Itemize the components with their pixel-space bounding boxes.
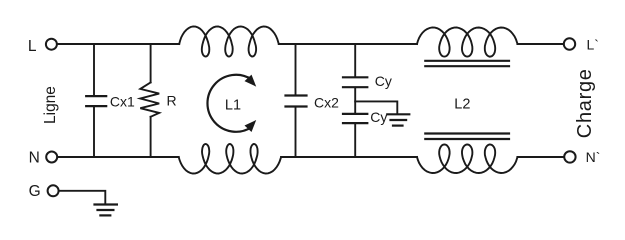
svg-text:N`: N`	[586, 149, 601, 165]
svg-text:L1: L1	[225, 98, 241, 114]
inductor L1 top winding	[179, 27, 278, 57]
L1 arrowhead bottom	[245, 120, 257, 132]
inductor L2 bottom winding	[417, 145, 517, 174]
wire G to ground	[60, 191, 106, 204]
L1 arrowhead top	[245, 75, 257, 87]
wire top L line left	[58, 43, 179, 45]
wire Cx2 branch lower	[295, 108, 297, 157]
wire Cx2 branch upper	[295, 44, 297, 94]
svg-text:Cx2: Cx2	[314, 95, 339, 111]
wire bottom N line left	[58, 156, 179, 158]
L1 circulation arrow arc	[207, 75, 251, 132]
capacitor Cx2	[286, 96, 307, 107]
terminal N	[46, 152, 57, 163]
svg-text:N: N	[29, 149, 40, 166]
L2 core top lines	[425, 61, 509, 66]
svg-text:Cy: Cy	[375, 73, 392, 89]
wire Cx1 branch upper	[93, 44, 95, 95]
wire bottom N line right	[517, 156, 563, 158]
capacitor Cy bottom	[343, 114, 367, 123]
svg-text:R: R	[167, 93, 177, 109]
wire top L line right	[517, 43, 563, 45]
svg-text:G: G	[29, 183, 41, 200]
wire R branch lower	[150, 117, 152, 157]
inductor L1 bottom winding	[179, 144, 281, 174]
svg-text:Cx1: Cx1	[110, 93, 135, 109]
resistor R	[140, 82, 159, 116]
svg-text:Cy: Cy	[370, 109, 387, 125]
wire Cy junction to ground	[355, 101, 397, 113]
svg-text:L`: L`	[587, 37, 599, 53]
svg-text:L: L	[28, 38, 37, 55]
inductor L2 top winding	[417, 28, 517, 57]
svg-text:Ligne: Ligne	[42, 86, 59, 124]
terminal G	[48, 185, 59, 196]
ground (G)	[95, 205, 117, 216]
wire Cx1 branch lower	[93, 107, 95, 157]
svg-text:Charge: Charge	[574, 68, 596, 138]
capacitor Cy top	[343, 77, 367, 87]
wire Cy branch upper	[354, 44, 356, 76]
wire bottom N line middle	[281, 156, 417, 158]
wire top L line middle	[279, 43, 417, 45]
ground (Cy)	[387, 114, 409, 125]
wire R branch upper	[150, 44, 152, 82]
terminal L_prime	[564, 38, 575, 49]
terminal N_prime	[564, 151, 575, 162]
wire Cy middle segment	[354, 88, 356, 113]
terminal L	[46, 39, 57, 50]
capacitor Cx1	[86, 96, 106, 106]
wire Cy branch lower	[354, 124, 356, 157]
L2 core bottom lines	[425, 134, 509, 140]
svg-text:L2: L2	[454, 96, 470, 112]
